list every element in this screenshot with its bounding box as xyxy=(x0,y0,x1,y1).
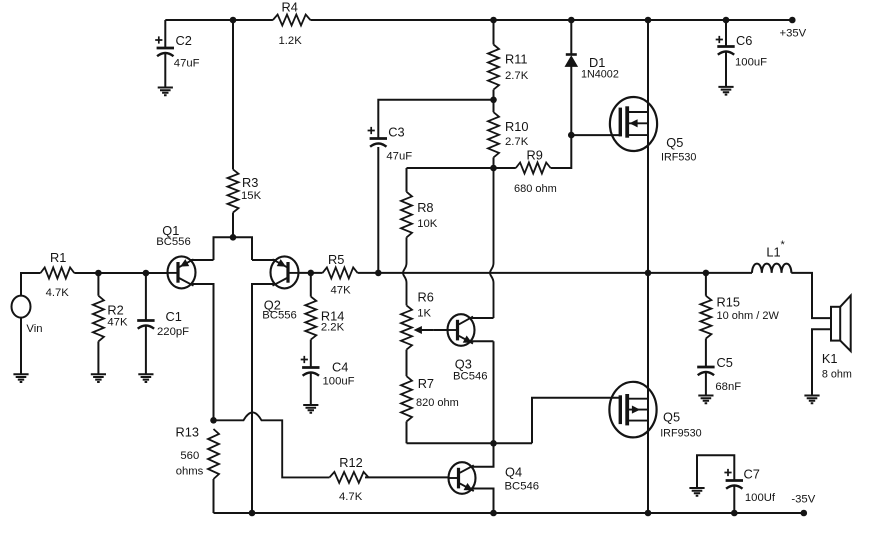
resistor R7 xyxy=(401,376,412,421)
label C7 value 100Uf xyxy=(744,467,776,505)
svg-text:15K: 15K xyxy=(241,190,262,202)
wire D1 to gate node xyxy=(570,66,572,135)
svg-text:R9: R9 xyxy=(527,148,543,163)
node +35V terminal dot xyxy=(789,17,796,24)
mosfet Q5 IRF9530 xyxy=(609,382,656,438)
resistor R13 xyxy=(208,429,219,479)
label R7 value 820 ohm xyxy=(416,376,459,409)
wire Q5 IRF530 drain-source vertical xyxy=(647,20,649,273)
wire -35V bottom rail xyxy=(214,512,804,514)
svg-text:BC556: BC556 xyxy=(262,310,297,322)
label -35V xyxy=(791,494,815,506)
junction mid line / output xyxy=(645,270,652,277)
junction R10/R9/R8 xyxy=(490,165,497,172)
svg-text:R5: R5 xyxy=(328,252,344,267)
label R2 value 47K xyxy=(107,303,128,329)
label R9 value 680 ohm xyxy=(514,148,557,196)
label Q5 IRF530 xyxy=(661,135,696,164)
wire C3 bottom xyxy=(377,147,379,273)
svg-text:C7: C7 xyxy=(744,467,760,482)
resistor R8 xyxy=(401,192,412,238)
ground C6 xyxy=(718,87,733,95)
junction top rail / D1 xyxy=(568,17,575,24)
junction bottom rail / Q4 emitter xyxy=(490,510,497,517)
wire rail to C6 xyxy=(725,20,727,47)
diode D1 1N4002 xyxy=(565,55,577,67)
label C5 value 68nF xyxy=(715,355,741,393)
wire R15 to C5 xyxy=(705,339,707,368)
svg-text:4.7K: 4.7K xyxy=(339,491,363,503)
ground K1 xyxy=(804,396,819,404)
wire C7 ground stub xyxy=(697,455,734,488)
svg-text:2.7K: 2.7K xyxy=(505,136,529,148)
resistor R15 xyxy=(700,296,711,339)
wire R5 to C3 node xyxy=(358,272,379,274)
wire +35V top rail left segment xyxy=(165,19,273,21)
junction top rail / C6 xyxy=(723,17,730,24)
wire R6 to R7 xyxy=(406,350,408,377)
resistor R5 xyxy=(323,267,358,278)
svg-text:C5: C5 xyxy=(717,355,733,370)
svg-text:BC546: BC546 xyxy=(453,371,488,383)
node -35V terminal dot xyxy=(801,510,808,517)
transistor Q2 BC556 xyxy=(271,256,299,288)
junction bottom rail / Q5 source xyxy=(645,510,652,517)
wire gate line to Q5 IRF530 xyxy=(571,134,620,136)
label C1 value 220pF xyxy=(157,309,189,338)
resistor R11 xyxy=(488,45,499,90)
svg-text:4.7K: 4.7K xyxy=(46,287,70,299)
svg-text:IRF9530: IRF9530 xyxy=(660,428,701,440)
resistor R3 xyxy=(228,169,239,212)
wire R15 top xyxy=(705,273,707,296)
svg-text:L1: L1 xyxy=(766,245,780,260)
svg-text:R2: R2 xyxy=(107,303,123,318)
mosfet Q5 IRF530 xyxy=(610,97,657,151)
label +35V xyxy=(780,28,807,40)
label L1 xyxy=(766,239,785,260)
wire C6 to ground xyxy=(725,52,727,87)
svg-text:Q4: Q4 xyxy=(505,465,522,480)
svg-text:100Uf: 100Uf xyxy=(745,492,776,504)
resistor R14 xyxy=(305,297,316,340)
wire L1 to speaker xyxy=(791,273,831,318)
label R5 value 47K xyxy=(328,252,351,297)
capacitor C1 xyxy=(137,321,154,329)
wire Q3 emitter lead xyxy=(470,340,494,342)
junction Q2 base / R14 xyxy=(308,270,315,277)
resistor R2 xyxy=(93,296,104,342)
svg-text:47uF: 47uF xyxy=(386,151,412,163)
wire rail to D1 xyxy=(570,20,572,55)
wire bias line up to IRF9530 gate xyxy=(532,398,620,444)
svg-text:Q5: Q5 xyxy=(663,410,680,425)
label Q4 BC546 xyxy=(505,465,540,493)
wire R7 to bias line xyxy=(406,422,408,444)
label R6 value 1K xyxy=(417,290,434,320)
wire R10 to R9 node xyxy=(493,157,495,168)
wire Q4 collector lead xyxy=(471,443,494,466)
label D1 value 1N4002 xyxy=(581,55,619,81)
junction bottom rail / Q2 collector xyxy=(249,510,256,517)
wire Q3 collector lead xyxy=(470,317,494,319)
svg-text:C4: C4 xyxy=(332,360,348,375)
wire Q1 collector lead xyxy=(191,284,214,420)
junction bottom rail / C7 xyxy=(731,510,738,517)
ground C7 xyxy=(689,488,704,496)
ground C2 xyxy=(158,88,173,96)
wiper arrow of R6 to Q3 base xyxy=(415,327,434,334)
svg-text:R6: R6 xyxy=(418,290,434,305)
label R10 value 2.7K xyxy=(505,119,529,148)
wire mid line C3 to output xyxy=(378,272,706,274)
svg-text:R7: R7 xyxy=(418,376,434,391)
svg-text:C6: C6 xyxy=(736,33,752,48)
wire R10 node down to Q3 collector with crossover xyxy=(490,168,494,318)
svg-text:R10: R10 xyxy=(505,119,528,134)
junction R11/R10/C3 xyxy=(490,97,497,104)
wire R2 top xyxy=(97,273,99,296)
svg-text:1K: 1K xyxy=(417,308,431,320)
resistor R12 xyxy=(330,472,369,483)
svg-text:100uF: 100uF xyxy=(735,57,767,69)
svg-text:BC546: BC546 xyxy=(505,481,540,493)
transistor Q3 BC546 xyxy=(448,314,475,346)
wire R8 top lead xyxy=(406,168,408,192)
ground C5 xyxy=(698,396,713,404)
wire C1 top xyxy=(145,273,147,321)
resistor R4 xyxy=(273,15,311,26)
svg-text:R1: R1 xyxy=(50,250,66,265)
wire C3 top to R10/R11 node xyxy=(378,100,493,139)
svg-text:1N4002: 1N4002 xyxy=(581,69,619,81)
svg-text:680 ohm: 680 ohm xyxy=(514,183,557,195)
wire mid line to L1 xyxy=(706,272,752,274)
svg-text:R15: R15 xyxy=(717,295,740,310)
wire +35V top rail right segment xyxy=(310,19,792,21)
wire Q3 emitter down to bias junction xyxy=(493,341,495,443)
svg-text:R3: R3 xyxy=(242,175,258,190)
label Vin xyxy=(26,323,42,335)
svg-text:Vin: Vin xyxy=(26,323,42,335)
svg-text:R13: R13 xyxy=(176,425,199,440)
svg-text:560: 560 xyxy=(180,450,199,462)
svg-text:R8: R8 xyxy=(417,200,433,215)
wire rail to R3 xyxy=(232,20,234,169)
label R15 value 10 ohm / 2W xyxy=(717,295,780,323)
ground C1 xyxy=(138,374,153,382)
label Q3 BC546 xyxy=(453,357,488,383)
label R12 value 4.7K xyxy=(339,455,363,503)
label C4 value 100uF xyxy=(323,360,355,388)
junction top rail / R3 xyxy=(230,17,237,24)
transistor Q1 BC556 xyxy=(168,256,196,288)
ground R2 xyxy=(91,374,106,382)
junction input / R2 xyxy=(95,270,102,277)
junction top rail / Q5 drain xyxy=(645,17,652,24)
svg-text:10K: 10K xyxy=(417,218,438,230)
svg-text:R12: R12 xyxy=(339,455,362,470)
svg-text:10 ohm / 2W: 10 ohm / 2W xyxy=(717,310,780,322)
svg-text:ohms: ohms xyxy=(176,466,204,478)
ground Vin xyxy=(13,374,28,382)
junction input / C1 xyxy=(143,270,150,277)
svg-text:2.7K: 2.7K xyxy=(505,70,529,82)
junction top rail / R11 xyxy=(490,17,497,24)
wire bias line xyxy=(407,442,533,444)
svg-text:C1: C1 xyxy=(166,309,182,324)
wire R13 to bottom rail xyxy=(213,479,215,513)
wire Q5 IRF9530 source-drain vertical xyxy=(647,273,649,513)
label R13 value 560 ohms xyxy=(176,425,204,478)
wire C4 to ground xyxy=(310,373,312,406)
svg-text:K1: K1 xyxy=(822,351,838,366)
junction bias line / Q3-Q4 xyxy=(490,440,497,447)
capacitor C5 xyxy=(697,367,714,375)
wire Vin to R1 xyxy=(21,273,41,296)
junction D1 / Q5 gate xyxy=(568,132,575,139)
wire Q4 emitter lead xyxy=(471,489,494,514)
svg-text:47uF: 47uF xyxy=(174,58,200,70)
svg-text:Q3: Q3 xyxy=(455,357,472,372)
svg-text:R4: R4 xyxy=(282,0,298,15)
wire Vin to ground xyxy=(20,318,22,375)
capacitor C7 xyxy=(724,469,743,489)
wire Q1 emitter lead xyxy=(191,259,214,261)
wire Q2 emitter lead xyxy=(252,259,276,261)
label C3 value 47uF xyxy=(386,125,412,163)
svg-text:47K: 47K xyxy=(107,317,128,329)
resistor R10 xyxy=(488,112,499,157)
svg-text:Q5: Q5 xyxy=(666,135,683,150)
svg-text:-35V: -35V xyxy=(791,494,815,506)
speaker K1 xyxy=(831,296,851,352)
wire C5 to ground xyxy=(705,372,707,396)
svg-text:R11: R11 xyxy=(505,52,528,67)
label Q5 IRF9530 xyxy=(660,410,701,440)
wire R14 top xyxy=(310,273,312,297)
wire speaker to ground xyxy=(812,329,831,395)
source Vin xyxy=(12,296,31,318)
capacitor C3 xyxy=(368,127,387,147)
svg-text:*: * xyxy=(781,239,786,251)
capacitor C4 xyxy=(301,356,320,376)
junction mid line / C3 xyxy=(375,270,382,277)
resistor R6 preset xyxy=(401,305,412,349)
label C2 value 47uF xyxy=(174,33,200,70)
svg-text:+35V: +35V xyxy=(780,28,807,40)
svg-text:IRF530: IRF530 xyxy=(661,152,696,164)
wire C2 to ground xyxy=(164,53,166,88)
wire R11 to R10 xyxy=(493,90,495,113)
wire R12 to Q4 base xyxy=(365,476,449,478)
svg-text:68nF: 68nF xyxy=(715,381,741,393)
svg-text:2.2K: 2.2K xyxy=(321,322,345,334)
svg-text:820 ohm: 820 ohm xyxy=(416,397,459,409)
resistor R1 xyxy=(41,268,75,279)
label Q1 BC556 xyxy=(156,223,191,248)
wire R8 bottom crossover jog xyxy=(403,237,407,305)
wire R1 to Q1 base xyxy=(74,272,167,274)
wire emitter tail xyxy=(214,237,253,260)
svg-text:1.2K: 1.2K xyxy=(279,35,303,47)
svg-text:BC556: BC556 xyxy=(156,236,191,248)
junction Q1 collector / R13 xyxy=(210,417,217,424)
label R1 value 4.7K xyxy=(46,250,70,299)
capacitor C6 xyxy=(716,36,735,55)
label C6 value 100uF xyxy=(735,33,767,69)
wire Q3 base lead xyxy=(434,329,448,331)
wire R8 top line xyxy=(407,167,516,169)
inductor L1 xyxy=(752,264,791,273)
label R8 value 10K xyxy=(417,200,438,230)
wire R13 hop over Q2 collector xyxy=(214,412,330,477)
wire Q2 base to R5 xyxy=(299,272,323,274)
wire Q2 collector lead xyxy=(252,284,276,513)
wire rail to R11 xyxy=(493,20,495,45)
svg-text:C3: C3 xyxy=(388,125,404,140)
label K1 value 8 ohm xyxy=(822,351,852,381)
svg-text:100uF: 100uF xyxy=(323,376,355,388)
svg-text:47K: 47K xyxy=(331,285,352,297)
ground C4 xyxy=(303,405,318,413)
label R14 value 2.2K xyxy=(321,309,345,334)
resistor R9 xyxy=(516,163,551,174)
wire C2 to rail xyxy=(164,20,166,48)
capacitor C2 xyxy=(155,36,174,56)
svg-text:220pF: 220pF xyxy=(157,326,189,338)
wire R3 to tail node xyxy=(232,213,234,238)
transistor Q4 BC546 xyxy=(449,462,476,494)
wire R2 to ground xyxy=(97,341,99,374)
wire C7 to bottom rail xyxy=(733,486,735,514)
svg-text:C2: C2 xyxy=(176,33,192,48)
label R4 value 1.2K xyxy=(279,0,303,47)
wire R14 to C4 xyxy=(310,340,312,368)
wire C1 to ground xyxy=(145,326,147,375)
label R3 value 15K xyxy=(241,175,262,202)
junction tail / R3 xyxy=(230,234,237,241)
label R11 value 2.7K xyxy=(505,52,529,83)
svg-text:8 ohm: 8 ohm xyxy=(822,369,852,381)
label Q2 BC556 xyxy=(262,298,297,322)
junction mid line / R15 xyxy=(703,270,710,277)
wire R9 to D1 node xyxy=(551,135,572,168)
